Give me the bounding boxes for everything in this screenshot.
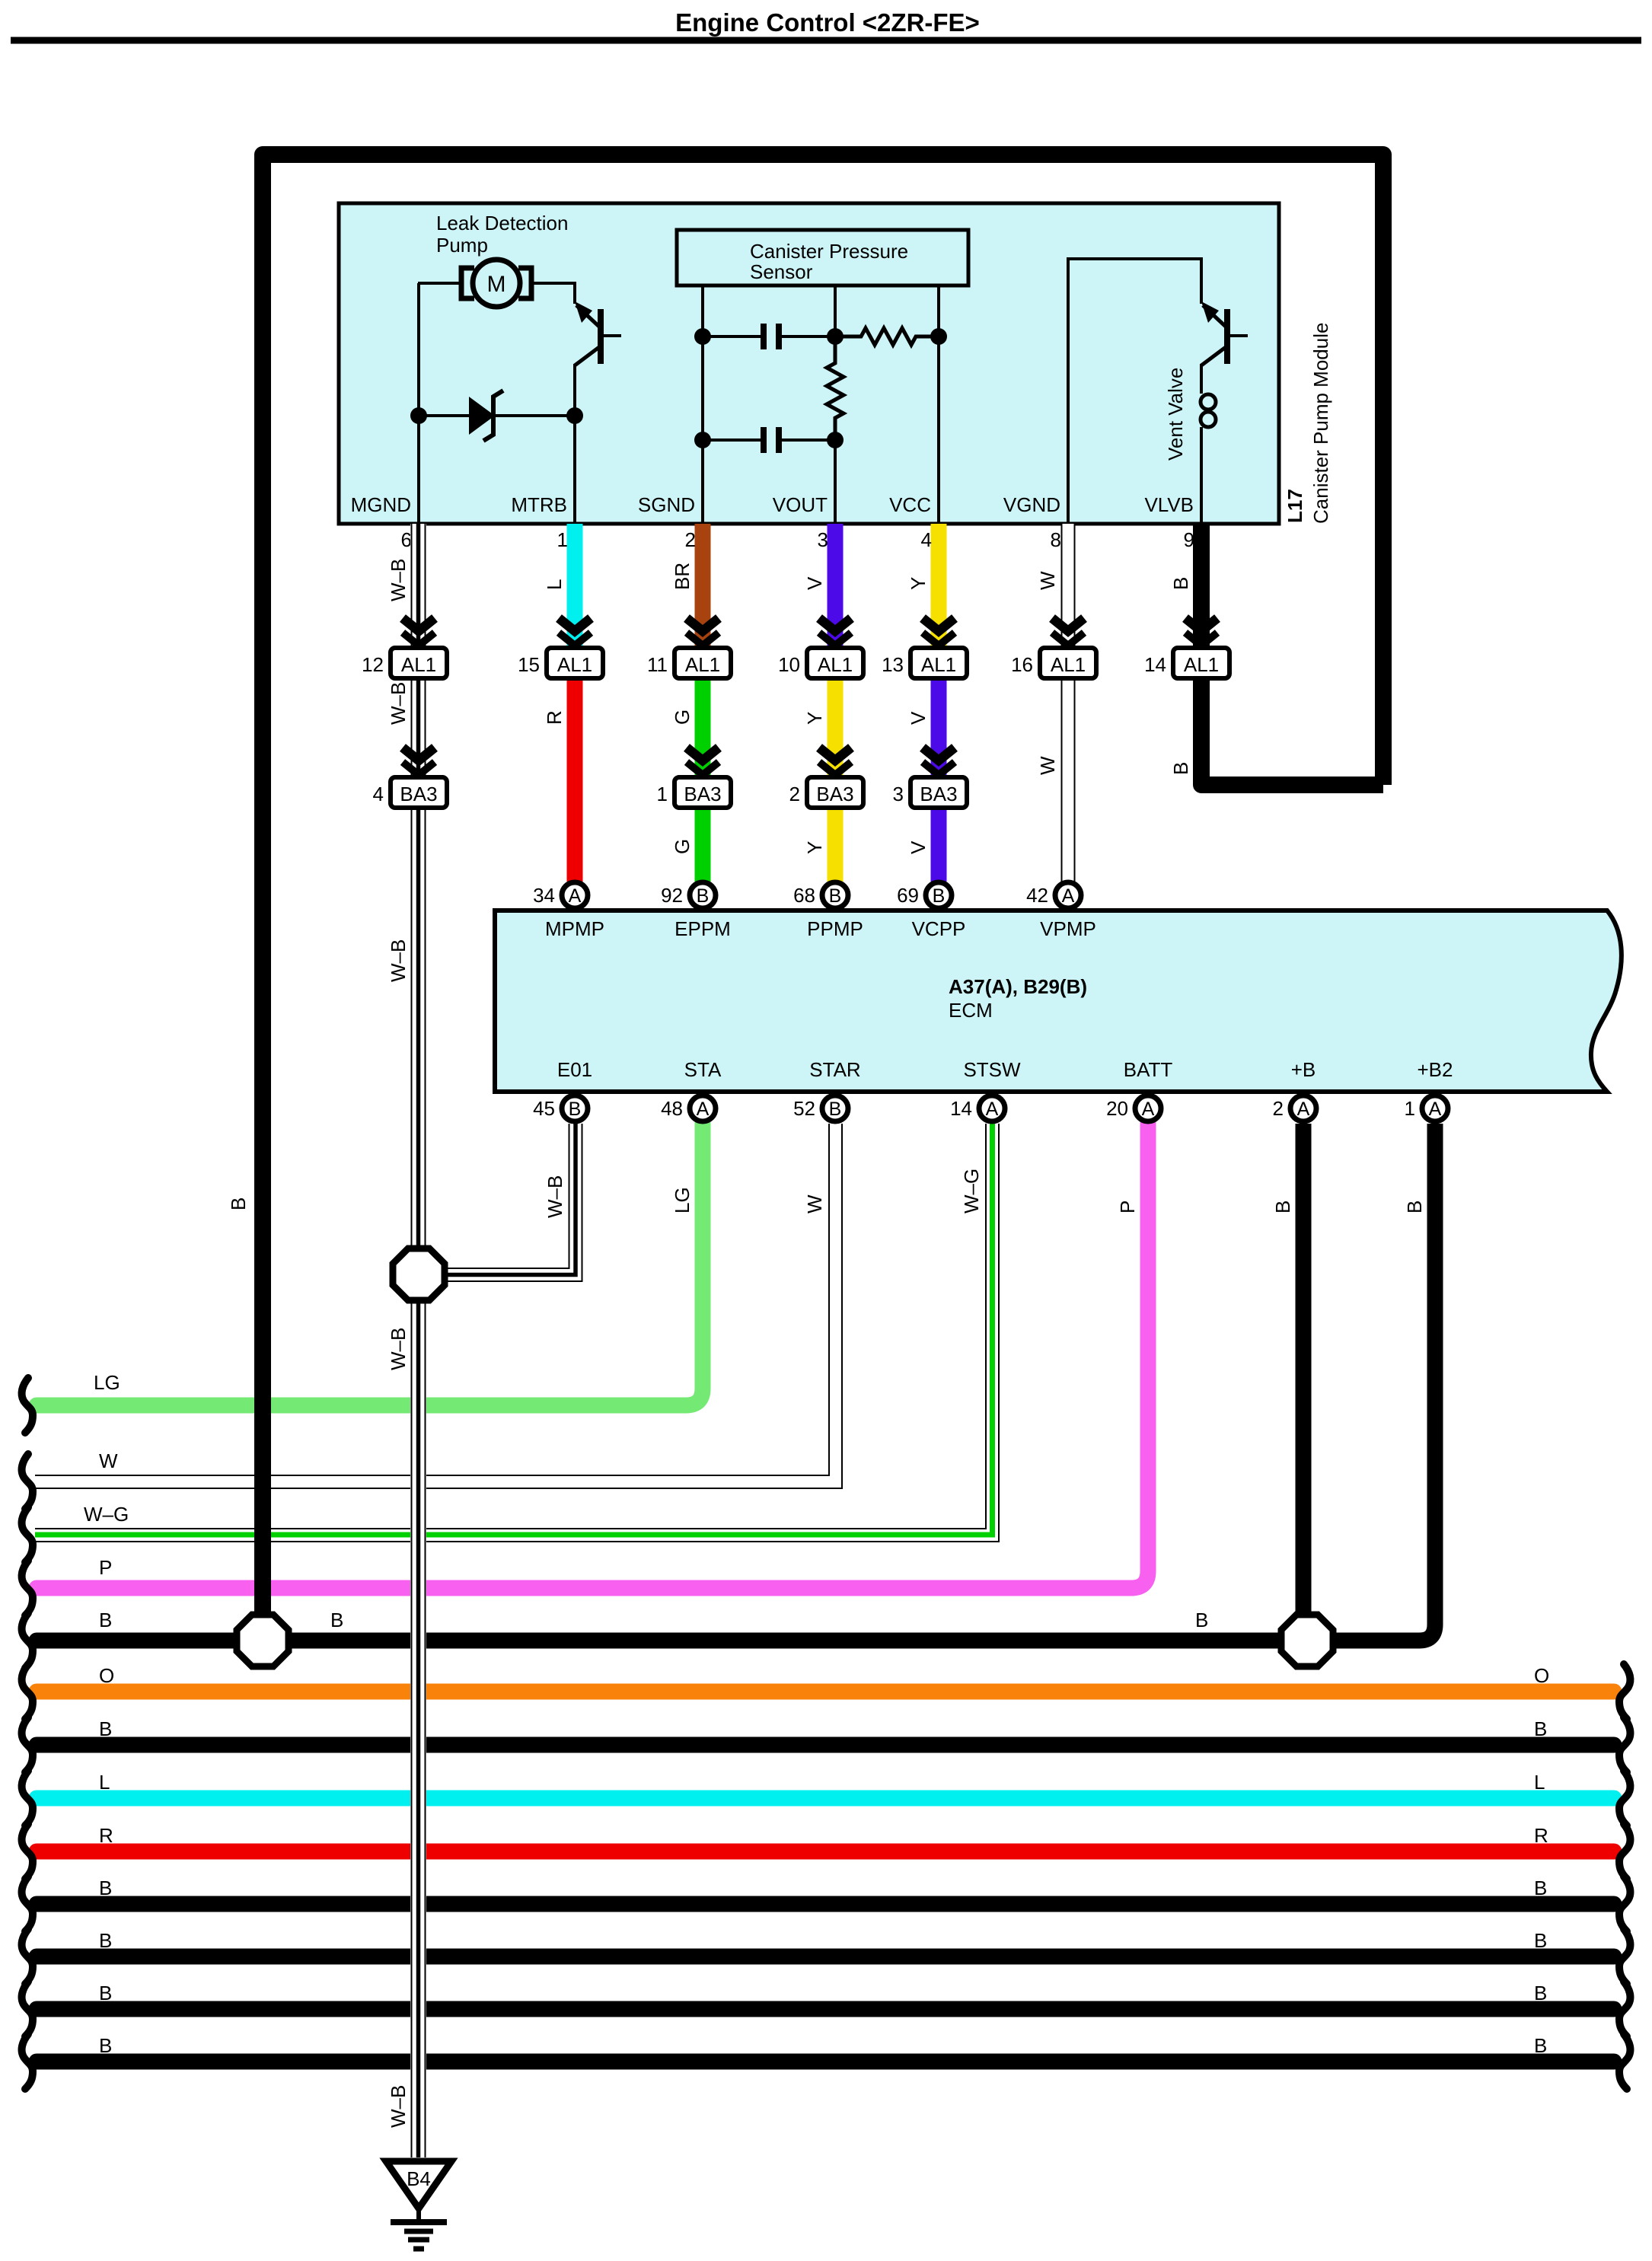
svg-text:BA3: BA3 <box>816 783 853 805</box>
break symbol left y=2501 <box>22 1877 33 1931</box>
svg-text:B: B <box>1534 1982 1547 2004</box>
connector AL1 pin 11 <box>675 648 731 678</box>
svg-text:B: B <box>1195 1609 1208 1631</box>
svg-text:AL1: AL1 <box>818 653 853 676</box>
connector AL1 pin 10 <box>807 648 863 678</box>
break symbol right y=2432 <box>1619 1824 1630 1879</box>
svg-text:B: B <box>933 885 946 907</box>
svg-text:W–B: W–B <box>544 1175 566 1218</box>
svg-text:Canister Pump Module: Canister Pump Module <box>1309 323 1332 524</box>
break symbol left y=2292 <box>22 1717 33 1772</box>
wire L (MTRB pin1) <box>567 524 583 649</box>
svg-text:3: 3 <box>893 783 904 805</box>
svg-text:1: 1 <box>1405 1097 1415 1120</box>
ECM pin 48(A) STA <box>690 1095 716 1121</box>
wire V (AL1 13 to BA3 3) <box>931 676 947 779</box>
svg-text:20: 20 <box>1106 1097 1128 1120</box>
connector AL1 pin 13 <box>911 648 967 678</box>
wire W-G (STSW to left break) <box>35 1124 992 1535</box>
svg-text:Engine Control <2ZR-FE>: Engine Control <2ZR-FE> <box>675 8 980 37</box>
svg-text:W–B: W–B <box>387 682 410 725</box>
svg-text:Vent Valve: Vent Valve <box>1164 368 1187 461</box>
svg-text:48: 48 <box>661 1097 683 1120</box>
svg-text:STSW: STSW <box>963 1058 1021 1081</box>
arrow into AL1 (16) <box>1052 618 1084 646</box>
svg-text:52: 52 <box>793 1097 815 1120</box>
svg-text:+B2: +B2 <box>1418 1058 1453 1081</box>
svg-text:13: 13 <box>882 653 904 676</box>
ECM pin 1(A) +B2 <box>1422 1095 1448 1121</box>
svg-text:B: B <box>99 1982 112 2004</box>
arrow into BA3 (2) <box>819 748 851 775</box>
svg-text:W: W <box>99 1449 118 1472</box>
svg-text:AL1: AL1 <box>401 653 436 676</box>
junction splice J1 (B bus / left B wire) <box>237 1615 289 1666</box>
arrow into BA3 (3) <box>923 748 955 775</box>
wire SGND internal <box>701 285 704 524</box>
svg-text:L: L <box>99 1771 110 1794</box>
svg-text:W–G: W–G <box>84 1503 129 1526</box>
svg-text:AL1: AL1 <box>921 653 956 676</box>
canister pump module box L17 <box>339 203 1279 524</box>
svg-text:VCPP: VCPP <box>912 917 966 940</box>
wire MGND internal <box>417 283 420 524</box>
svg-text:W: W <box>803 1194 826 1213</box>
svg-text:A: A <box>1062 885 1075 907</box>
break symbol left y=2432 <box>22 1824 33 1879</box>
svg-text:1: 1 <box>657 783 668 805</box>
wire Y (AL1 10 to BA3 2) <box>828 676 844 779</box>
svg-text:A: A <box>569 885 582 907</box>
svg-text:Canister Pressure: Canister Pressure <box>750 240 908 263</box>
arrow into BA3 (4) <box>403 748 435 775</box>
svg-text:15: 15 <box>518 653 540 676</box>
transistor Q1 base bar <box>598 309 604 364</box>
wire B horizontal y=2292 <box>37 1737 1614 1753</box>
svg-text:W–B: W–B <box>387 2085 410 2128</box>
connector AL1 pin 14 <box>1173 648 1229 678</box>
svg-text:B: B <box>829 885 842 907</box>
svg-text:A37(A), B29(B): A37(A), B29(B) <box>949 975 1087 998</box>
wire B horizontal y=2570 <box>37 1949 1614 1965</box>
svg-text:SGND: SGND <box>638 493 695 516</box>
svg-text:W: W <box>1036 756 1059 775</box>
svg-text:12: 12 <box>362 653 384 676</box>
svg-text:EPPM: EPPM <box>675 917 731 940</box>
node dots sensor network <box>694 328 711 345</box>
svg-text:AL1: AL1 <box>1051 653 1086 676</box>
svg-text:MGND: MGND <box>351 493 411 516</box>
svg-text:BR: BR <box>671 563 694 590</box>
wire B from ECM pin 2 (+B) <box>1296 1124 1312 1618</box>
svg-text:A: A <box>697 1099 710 1120</box>
ECM pin 2(A) +B <box>1290 1095 1316 1121</box>
motor M1 <box>473 260 520 307</box>
wire Y (VCC pin4) <box>931 524 947 649</box>
svg-text:B: B <box>1534 1877 1547 1899</box>
break symbol left y=2708 <box>22 2034 33 2089</box>
svg-text:MTRB: MTRB <box>511 493 567 516</box>
svg-text:Sensor: Sensor <box>750 260 813 283</box>
svg-text:W–B: W–B <box>387 559 410 601</box>
wire B VLVB elbow to right border <box>1201 676 1383 785</box>
connector BA3 pin 1 <box>675 777 731 808</box>
svg-text:16: 16 <box>1011 653 1033 676</box>
ECM box A37(A) B29(B) <box>495 910 1622 1092</box>
svg-text:3: 3 <box>818 528 828 551</box>
svg-text:B: B <box>569 1099 582 1120</box>
ECM pin 45(B) E01 <box>562 1095 588 1121</box>
break symbol left y=2086 <box>22 1561 33 1615</box>
svg-text:B: B <box>1169 762 1192 775</box>
svg-text:AL1: AL1 <box>685 653 720 676</box>
svg-text:4: 4 <box>373 783 384 805</box>
wire W (STAR to left break) <box>35 1124 835 1481</box>
ECM pin 14(A) STSW <box>979 1095 1005 1121</box>
svg-text:B: B <box>99 1929 112 1952</box>
wire B main loop (left/top/right border) <box>263 155 1383 1618</box>
transistor Q2 base bar <box>1224 309 1230 364</box>
capacitor C2 leads <box>703 438 761 442</box>
wire BR (SGND pin2) <box>695 524 711 649</box>
svg-text:Y: Y <box>803 841 826 854</box>
ECM pin 68(B) PPMP <box>822 882 848 908</box>
svg-text:B: B <box>1534 1929 1547 1952</box>
wire B VLVB pin9 stub <box>1193 521 1210 649</box>
wire VOUT internal <box>834 285 837 339</box>
transistor Q1 base lead <box>604 334 621 337</box>
svg-text:VLVB: VLVB <box>1144 493 1194 516</box>
svg-text:L: L <box>543 579 566 590</box>
svg-text:B: B <box>1403 1201 1426 1213</box>
zener diode D1 <box>469 397 495 435</box>
svg-text:BA3: BA3 <box>684 783 721 805</box>
svg-text:W–G: W–G <box>960 1169 983 1213</box>
svg-text:B: B <box>99 1877 112 1899</box>
svg-text:A: A <box>1429 1099 1442 1120</box>
svg-text:A: A <box>986 1099 999 1120</box>
svg-text:B: B <box>330 1609 343 1631</box>
svg-text:B4: B4 <box>407 2167 431 2190</box>
wire R horizontal y=2432 <box>37 1844 1614 1860</box>
svg-text:L17: L17 <box>1284 489 1306 523</box>
wire motor left lead <box>418 282 462 285</box>
vent valve coil L1 <box>1200 364 1203 394</box>
ECM pin 42(A) VPMP <box>1055 882 1081 908</box>
svg-text:B: B <box>227 1197 250 1210</box>
break symbol left y=2222 <box>22 1664 33 1719</box>
wire B horizontal y=2501 <box>37 1896 1614 1912</box>
capacitor C1 leads <box>703 335 761 338</box>
break symbol right y=2570 <box>1619 1929 1630 1984</box>
svg-text:STAR: STAR <box>809 1058 860 1081</box>
break symbol right y=2222 <box>1619 1664 1630 1719</box>
node dot MGND/D1 <box>410 407 427 424</box>
svg-text:G: G <box>671 710 694 725</box>
svg-text:+B: +B <box>1291 1058 1316 1081</box>
arrow into AL1 (10) <box>819 618 851 646</box>
break symbol right y=2708 <box>1619 2034 1630 2089</box>
svg-text:R: R <box>1534 1824 1548 1847</box>
svg-text:92: 92 <box>661 884 683 907</box>
break symbol left y=2362 <box>22 1771 33 1826</box>
svg-text:O: O <box>99 1664 114 1687</box>
resistor R2 vertical <box>827 336 844 440</box>
svg-text:M: M <box>487 272 506 297</box>
svg-text:69: 69 <box>897 884 919 907</box>
motor M1 brushes <box>461 268 474 298</box>
svg-text:B: B <box>829 1099 842 1120</box>
capacitor C1 <box>761 324 767 349</box>
svg-text:BATT: BATT <box>1124 1058 1173 1081</box>
arrow into AL1 (11) <box>687 618 719 646</box>
junction splice J2 (W-B) <box>393 1248 445 1300</box>
svg-text:Pump: Pump <box>436 234 488 257</box>
connector AL1 pin 15 <box>547 648 603 678</box>
connector BA3 pin 3 <box>911 777 967 808</box>
transistor Q2 collector <box>1203 305 1226 327</box>
wire B horizontal y=2708 <box>37 2054 1614 2070</box>
wire W (VGND pin8) <box>1062 524 1075 649</box>
svg-text:2: 2 <box>685 528 696 551</box>
svg-text:2: 2 <box>789 783 800 805</box>
svg-text:V: V <box>803 576 826 590</box>
connector AL1 pin 16 <box>1040 648 1096 678</box>
svg-text:LG: LG <box>94 1371 120 1394</box>
svg-text:B: B <box>1271 1201 1294 1213</box>
svg-text:A: A <box>1297 1099 1310 1120</box>
break symbol right y=2501 <box>1619 1877 1630 1931</box>
ECM pin 92(B) EPPM <box>690 882 716 908</box>
wire L horizontal y=2362 <box>37 1791 1614 1807</box>
break symbol left y=2639 <box>22 1982 33 2036</box>
svg-text:8: 8 <box>1051 528 1061 551</box>
transistor Q1 collector <box>576 305 599 327</box>
connector BA3 pin 4 <box>391 777 447 808</box>
svg-text:W–B: W–B <box>387 1328 410 1370</box>
svg-text:Leak Detection: Leak Detection <box>436 212 568 234</box>
svg-text:45: 45 <box>533 1097 555 1120</box>
wire W-B main (MGND to ground B4) <box>410 524 426 2157</box>
wire O horizontal y=2222 <box>37 1684 1614 1700</box>
ground B4 <box>386 2161 451 2208</box>
svg-text:A: A <box>1142 1099 1155 1120</box>
svg-text:9: 9 <box>1184 528 1194 551</box>
svg-text:W: W <box>1036 571 1059 590</box>
ECM pin 52(B) STAR <box>822 1095 848 1121</box>
zener diode D1 anode lead <box>419 414 470 417</box>
wire V (BA3 3 to VCPP) <box>931 805 947 882</box>
svg-text:R: R <box>99 1824 113 1847</box>
svg-text:B: B <box>1534 1717 1547 1740</box>
transistor Q2 emitter <box>1201 347 1226 365</box>
svg-text:68: 68 <box>793 884 815 907</box>
svg-text:O: O <box>1534 1664 1549 1687</box>
ECM pin 34(A) MPMP <box>562 882 588 908</box>
svg-text:V: V <box>907 840 930 854</box>
svg-text:W–B: W–B <box>387 939 410 982</box>
capacitor C2 <box>761 427 767 453</box>
wire P (BATT to left break) <box>37 1124 1148 1588</box>
svg-text:6: 6 <box>401 528 412 551</box>
svg-text:P: P <box>99 1556 112 1579</box>
connector AL1 pin 12 <box>391 648 447 678</box>
break symbol left y=2016 <box>22 1507 33 1562</box>
svg-text:B: B <box>1169 577 1192 590</box>
wire V (VOUT pin3) <box>828 524 844 649</box>
break symbol left y=1846 <box>22 1378 33 1433</box>
svg-text:R: R <box>543 710 566 725</box>
wire B from ECM pin 1 (+B2) <box>1332 1124 1435 1641</box>
zener diode D1 cathode lead <box>493 414 575 417</box>
transistor Q1 emitter <box>575 347 599 365</box>
svg-text:Y: Y <box>803 712 826 725</box>
wire Y (BA3 2 to PPMP) <box>828 805 844 882</box>
svg-text:P: P <box>1116 1201 1139 1213</box>
svg-text:11: 11 <box>647 653 668 676</box>
svg-text:10: 10 <box>778 653 800 676</box>
svg-text:B: B <box>99 2034 112 2057</box>
arrow into AL1 (12) <box>403 618 435 646</box>
break symbol right y=2292 <box>1619 1717 1630 1772</box>
svg-text:4: 4 <box>921 528 932 551</box>
svg-text:VCC: VCC <box>889 493 931 516</box>
svg-text:BA3: BA3 <box>920 783 957 805</box>
wire VGND internal <box>1068 259 1201 524</box>
arrow into AL1 (13) <box>923 618 955 646</box>
svg-text:STA: STA <box>684 1058 722 1081</box>
svg-text:V: V <box>907 711 930 725</box>
svg-text:VOUT: VOUT <box>773 493 828 516</box>
svg-text:B: B <box>1534 2034 1547 2057</box>
title rule <box>11 37 1641 44</box>
svg-text:LG: LG <box>671 1187 694 1213</box>
svg-text:B: B <box>99 1609 112 1631</box>
break symbol right y=2362 <box>1619 1771 1630 1826</box>
wire B ground bus <box>37 1633 1340 1649</box>
svg-text:VGND: VGND <box>1003 493 1060 516</box>
svg-text:2: 2 <box>1273 1097 1284 1120</box>
resistor R1 horizontal <box>835 328 939 345</box>
connector BA3 pin 2 <box>807 777 863 808</box>
svg-text:1: 1 <box>557 528 568 551</box>
wire G (BA3 1 to EPPM) <box>695 805 711 882</box>
svg-text:AL1: AL1 <box>557 653 592 676</box>
wire motor right lead <box>531 283 575 304</box>
wire B horizontal y=2639 <box>37 2001 1614 2017</box>
svg-text:BA3: BA3 <box>400 783 437 805</box>
break symbol left y=2155 <box>22 1613 33 1668</box>
svg-text:ECM: ECM <box>949 999 993 1022</box>
wire W-B (E01 to splice J2) <box>448 1124 576 1274</box>
wire LG (STA to left break) <box>37 1124 703 1405</box>
svg-text:B: B <box>99 1717 112 1740</box>
wire MTRB internal <box>573 364 576 524</box>
wire W (AL1 16 to VPMP) <box>1062 676 1075 882</box>
svg-text:E01: E01 <box>557 1058 592 1081</box>
svg-text:B: B <box>697 885 710 907</box>
node dot MTRB/D1 <box>566 407 583 424</box>
svg-text:AL1: AL1 <box>1184 653 1219 676</box>
ECM pin 69(B) VCPP <box>926 882 952 908</box>
break symbol left y=1946 <box>22 1454 33 1509</box>
arrow into AL1 (14) <box>1185 618 1217 646</box>
svg-text:Y: Y <box>907 577 930 590</box>
ECM pin 20(A) BATT <box>1135 1095 1161 1121</box>
svg-text:14: 14 <box>1144 653 1166 676</box>
svg-text:34: 34 <box>533 884 555 907</box>
svg-text:VPMP: VPMP <box>1040 917 1096 940</box>
svg-text:L: L <box>1534 1771 1545 1794</box>
wire G (AL1 11 to BA3 1) <box>695 676 711 779</box>
break symbol right y=2639 <box>1619 1982 1630 2036</box>
svg-text:MPMP: MPMP <box>545 917 604 940</box>
break symbol left y=2570 <box>22 1929 33 1984</box>
svg-text:G: G <box>671 839 694 854</box>
wire VCC internal <box>937 285 940 524</box>
wire R (AL1 15 to MPMP) <box>567 676 583 882</box>
junction splice J3 (B bus / +B / +B2) <box>1281 1615 1333 1666</box>
svg-text:42: 42 <box>1026 884 1048 907</box>
canister pressure sensor box <box>677 230 968 285</box>
svg-text:PPMP: PPMP <box>807 917 863 940</box>
arrow into AL1 (15) <box>559 618 591 646</box>
transistor Q2 base lead <box>1230 334 1248 337</box>
svg-text:14: 14 <box>950 1097 972 1120</box>
arrow into BA3 (1) <box>687 748 719 775</box>
